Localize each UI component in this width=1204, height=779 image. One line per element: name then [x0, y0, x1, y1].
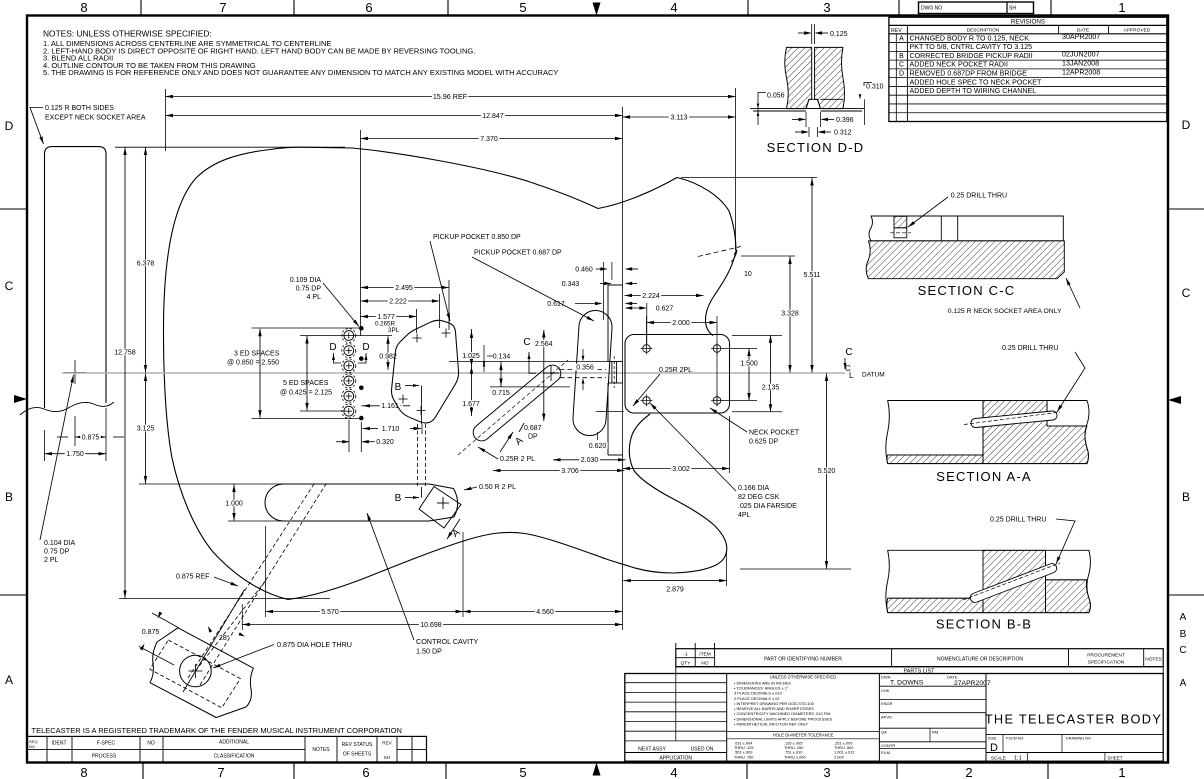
svg-text:USED ON: USED ON [691, 747, 714, 753]
svg-text:NO: NO [701, 661, 708, 667]
svg-text:REV STATUS: REV STATUS [342, 742, 373, 748]
dim 3.328 [741, 255, 795, 257]
svg-text:PROCUREMENT: PROCUREMENT [1087, 653, 1125, 659]
svg-text:0.25R 2PL: 0.25R 2PL [659, 367, 692, 374]
svg-text:SIZE: SIZE [988, 736, 997, 740]
dim 3.002 [729, 416, 731, 473]
svg-text:0.620: 0.620 [589, 443, 607, 450]
svg-text:A: A [1180, 678, 1187, 689]
svg-text:A: A [513, 435, 525, 448]
dim 5.570 [265, 526, 267, 617]
dim 0.617 [546, 300, 567, 307]
svg-text:CONTROL CAVITY: CONTROL CAVITY [416, 637, 479, 646]
svg-text:7.370: 7.370 [480, 136, 498, 143]
extension line cavity top y=484 [139, 483, 368, 485]
dim 0.356 [582, 349, 584, 358]
svg-text:0.875 REF: 0.875 REF [176, 574, 209, 581]
svg-text:3PL: 3PL [388, 327, 400, 334]
svg-text:0.125: 0.125 [830, 31, 848, 38]
svg-text:RM: RM [932, 730, 938, 735]
control cavity [265, 484, 458, 521]
svg-text:0.75 DP: 0.75 DP [44, 549, 70, 556]
svg-text:13JAN2008: 13JAN2008 [1062, 60, 1099, 68]
section B-B cavity lines [888, 597, 983, 599]
svg-text:5.570: 5.570 [321, 609, 339, 616]
svg-text:6.378: 6.378 [137, 260, 155, 267]
svg-text:0.104 DIA: 0.104 DIA [44, 540, 75, 547]
zone ticks sides [0, 208, 27, 210]
svg-text:C: C [845, 347, 852, 358]
neck pickup pocket [392, 320, 459, 423]
svg-text:5: 5 [519, 0, 526, 15]
dim 2.222 [361, 300, 440, 302]
dim 1.750 thickness [45, 453, 107, 455]
svg-text:REV: REV [891, 28, 902, 34]
svg-text:DATE: DATE [947, 675, 958, 680]
svg-text:CHK: CHK [881, 688, 890, 693]
svg-text:SHEET: SHEET [1108, 755, 1123, 760]
svg-text:1.710: 1.710 [382, 426, 400, 433]
svg-text:0.627: 0.627 [656, 305, 674, 312]
svg-text:3.113: 3.113 [671, 114, 688, 121]
svg-text:SECTION D-D: SECTION D-D [767, 140, 865, 155]
svg-text:10.698: 10.698 [420, 622, 442, 629]
section C-C lower block [866, 241, 1064, 279]
svg-text:C: C [1179, 645, 1186, 656]
svg-text:DATUM: DATUM [862, 372, 885, 379]
svg-text:SCALE: SCALE [991, 755, 1006, 760]
title block [625, 674, 1163, 762]
svg-text:3 ED SPACES: 3 ED SPACES [234, 351, 280, 358]
svg-text:3.002: 3.002 [672, 466, 690, 473]
svg-text:27APR2007: 27APR2007 [954, 680, 991, 687]
svg-text:@ 0.425 = 2.125: @ 0.425 = 2.125 [280, 389, 332, 396]
svg-text:FSCM NO: FSCM NO [1006, 736, 1024, 740]
svg-text:3.125: 3.125 [137, 425, 155, 432]
svg-text:@ 0.850 = 2.550: @ 0.850 = 2.550 [227, 360, 279, 367]
svg-text:0.50 R 2 PL: 0.50 R 2 PL [479, 484, 516, 491]
svg-text:ITEM: ITEM [699, 652, 710, 658]
svg-text:0.356: 0.356 [576, 364, 594, 371]
svg-text:0.625 DP: 0.625 DP [749, 439, 779, 446]
svg-text:DESCRIPTION: DESCRIPTION [967, 27, 1000, 33]
svg-text:QA: QA [881, 730, 887, 735]
svg-text:B: B [1180, 629, 1187, 640]
svg-text:02JUN2007: 02JUN2007 [1062, 51, 1100, 59]
svg-text:0.75 DP: 0.75 DP [296, 286, 322, 293]
svg-text:2.222: 2.222 [389, 298, 407, 305]
svg-text:0.25 DRILL THRU: 0.25 DRILL THRU [1002, 345, 1058, 352]
dim 15.96 REF [166, 96, 736, 98]
notes block [43, 29, 558, 78]
section C-C drill block [894, 216, 907, 228]
svg-text:8: 8 [80, 0, 87, 15]
svg-text:T. DOWNS: T. DOWNS [890, 680, 924, 687]
svg-text:PART OR IDENTIFYING NUMBER: PART OR IDENTIFYING NUMBER [764, 657, 842, 663]
body outline [164, 147, 737, 335]
centering arrow left [14, 395, 27, 403]
section B-B hatch mid [983, 550, 1046, 612]
svg-text:QTY: QTY [681, 661, 692, 667]
svg-text:2.495: 2.495 [395, 285, 413, 292]
svg-text:2.135: 2.135 [762, 384, 780, 391]
svg-text:3: 3 [823, 0, 830, 15]
svg-text:1.025: 1.025 [462, 353, 480, 360]
svg-text:C: C [5, 279, 14, 293]
svg-text:ENGR: ENGR [881, 701, 893, 706]
svg-text:CONTR: CONTR [881, 743, 895, 748]
svg-text:PICKUP POCKET 0.850 DP: PICKUP POCKET 0.850 DP [433, 234, 521, 241]
svg-text:FILM: FILM [881, 750, 890, 755]
dim 0.056 [758, 93, 766, 100]
svg-text:0.109 DIA: 0.109 DIA [290, 277, 321, 284]
dim 0.396 [805, 112, 807, 127]
svg-text:7: 7 [219, 0, 226, 15]
svg-text:REMOVED 0.687DP FROM BRIDGE: REMOVED 0.687DP FROM BRIDGE [910, 69, 1028, 77]
wiring channel dashed to cavity [417, 424, 419, 486]
section B-B hatch bottom [887, 598, 983, 613]
svg-text:REV: REV [382, 741, 392, 746]
svg-text:0.25 DRILL THRU: 0.25 DRILL THRU [951, 193, 1007, 200]
svg-text:B: B [899, 53, 904, 60]
dim 0.312 [808, 127, 810, 137]
svg-text:1.500: 1.500 [740, 360, 758, 367]
svg-text:1.677: 1.677 [462, 401, 480, 408]
svg-text:D: D [5, 119, 14, 133]
svg-text:DP: DP [528, 434, 538, 441]
bottom left table [27, 736, 427, 762]
section B-B block [886, 550, 1091, 612]
jack plate dashed rect [150, 640, 241, 708]
svg-text:PICKUP POCKET 0.687 DP: PICKUP POCKET 0.687 DP [474, 250, 562, 257]
svg-text:TELECASTER IS A REGISTERED TRA: TELECASTER IS A REGISTERED TRADEMARK OF … [32, 726, 402, 735]
svg-text:0.166 DIA: 0.166 DIA [738, 485, 769, 492]
svg-text:B: B [395, 493, 402, 504]
section D-D surface lines [750, 108, 865, 110]
side view outline [45, 147, 107, 408]
svg-text:4: 4 [670, 765, 677, 779]
section A-A cavity lines [888, 454, 983, 456]
neck pocket [625, 335, 730, 414]
svg-text:C: C [899, 62, 904, 69]
side view centerline cross [74, 360, 76, 384]
svg-text:ADDED HOLE SPEC TO NECK POCKET: ADDED HOLE SPEC TO NECK POCKET [910, 78, 1042, 86]
svg-text:L: L [849, 371, 854, 380]
svg-text:DWG NO: DWG NO [921, 6, 942, 12]
svg-text:NOTES: NOTES [312, 747, 330, 753]
extension line top tangent y=147.2 [115, 146, 345, 148]
svg-text:2.879: 2.879 [666, 587, 684, 594]
svg-text:7: 7 [217, 765, 224, 779]
svg-text:APPROVED: APPROVED [1124, 27, 1151, 33]
svg-text:1.50 DP: 1.50 DP [416, 647, 442, 656]
svg-text:6: 6 [362, 765, 369, 779]
parts list header [676, 643, 1163, 675]
svg-text:THRU 1.000: THRU 1.000 [784, 754, 806, 759]
dim 2.879 [726, 552, 728, 586]
svg-text:PROCESS: PROCESS [92, 754, 117, 760]
svg-text:0.312: 0.312 [834, 130, 852, 137]
dim 3.706 [493, 470, 625, 472]
svg-text:NO: NO [29, 744, 35, 749]
centering arrow right [1168, 396, 1181, 404]
svg-text:APPLICATION: APPLICATION [659, 756, 692, 762]
svg-text:• PARENTHETICAL INFO FOR REF O: • PARENTHETICAL INFO FOR REF ONLY [734, 722, 809, 727]
dim 5.520 [740, 568, 851, 570]
dim 2.000 [646, 316, 648, 343]
dim 1.500 [722, 348, 757, 350]
svg-text:C: C [523, 337, 530, 348]
svg-text:.025 DIA FARSIDE: .025 DIA FARSIDE [738, 503, 797, 510]
svg-text:0.396: 0.396 [836, 117, 854, 124]
section D-D ferrule [806, 99, 821, 108]
jack hole [180, 655, 212, 687]
svg-text:CORRECTED BRIDGE PICKUP RADII: CORRECTED BRIDGE PICKUP RADII [910, 52, 1033, 60]
dim 0.875 jack [152, 613, 179, 628]
dim 10.698 [241, 604, 243, 630]
centering arrow top [593, 3, 601, 16]
svg-text:2.224: 2.224 [642, 293, 660, 300]
svg-text:15.96 REF: 15.96 REF [433, 92, 468, 101]
svg-text:CHANGED BODY R TO 0.125, NECK: CHANGED BODY R TO 0.125, NECK [910, 34, 1030, 42]
svg-text:NOTES: UNLESS OTHERWISE SPECI: NOTES: UNLESS OTHERWISE SPECIFIED: [43, 29, 212, 39]
svg-text:OF SHEETS: OF SHEETS [343, 752, 372, 758]
svg-text:D: D [990, 742, 998, 754]
svg-text:2 PL: 2 PL [44, 557, 59, 564]
revisions table [889, 17, 1167, 121]
svg-text:1: 1 [1118, 0, 1125, 15]
dim 2.495 [361, 287, 450, 289]
svg-text:10: 10 [744, 271, 752, 278]
pickup screw crosses [413, 337, 422, 339]
dim 0.310 [864, 83, 872, 87]
svg-text:HOLE DIAMETER TOLERANCE: HOLE DIAMETER TOLERANCE [773, 732, 834, 737]
bridge pickup pocket [573, 310, 612, 435]
angle 10 deg [698, 247, 741, 257]
svg-text:30APR2007: 30APR2007 [1062, 33, 1100, 41]
svg-text:SECTION B-B: SECTION B-B [936, 617, 1032, 632]
svg-text:0.687: 0.687 [524, 425, 542, 432]
svg-text:4 PL: 4 PL [307, 294, 322, 301]
svg-text:0.875 DIA HOLE THRU: 0.875 DIA HOLE THRU [277, 640, 352, 649]
extension y=361.5 [449, 361, 608, 363]
svg-text:D: D [362, 342, 369, 353]
svg-text:2.564: 2.564 [535, 341, 553, 348]
dim 3.113 [623, 116, 736, 118]
extension line body bottom y=598.5 [119, 598, 330, 600]
channel end cross and dashed leads [543, 372, 559, 374]
svg-text:12.758: 12.758 [114, 349, 136, 356]
svg-text:5. THE DRAWING IS FOR REFERENC: 5. THE DRAWING IS FOR REFERENCE ONLY AND… [43, 68, 558, 77]
svg-text:D: D [329, 342, 336, 353]
dim 4.560 [463, 611, 623, 613]
dim 2.564 [543, 330, 545, 421]
section A letters [513, 435, 525, 448]
svg-text:A: A [899, 35, 904, 42]
svg-text:4: 4 [670, 0, 677, 15]
section B-B channel [970, 564, 1056, 603]
svg-text:THE TELECASTER BODY: THE TELECASTER BODY [985, 712, 1162, 727]
svg-text:5: 5 [519, 765, 526, 779]
svg-text:CLASSIFICATION: CLASSIFICATION [214, 754, 255, 760]
svg-text:1: 1 [1118, 765, 1125, 779]
svg-text:REVISIONS: REVISIONS [1011, 19, 1045, 26]
svg-text:UNLESS OTHERWISE SPECIFIED: UNLESS OTHERWISE SPECIFIED [770, 675, 836, 680]
svg-text:0.460: 0.460 [575, 266, 593, 273]
svg-text:2.000: 2.000 [672, 320, 690, 327]
extension y=386.9 [490, 386, 570, 388]
svg-text:2: 2 [965, 765, 972, 779]
section A-A leader [1057, 352, 1085, 412]
svg-text:82 DEG CSK: 82 DEG CSK [738, 494, 780, 501]
dwg no box [919, 2, 1034, 14]
string slot [608, 361, 623, 363]
svg-text:B: B [1182, 490, 1190, 504]
svg-text:12.847: 12.847 [482, 113, 504, 120]
svg-text:SH: SH [384, 755, 390, 760]
dim 12.847 [166, 115, 623, 117]
dim 0.134 [491, 353, 512, 360]
dim 0.627 [654, 305, 675, 312]
svg-text:4PL: 4PL [738, 512, 751, 519]
svg-text:ADDED NECK POCKET RADII: ADDED NECK POCKET RADII [910, 61, 1008, 69]
jack plate outline [150, 628, 253, 718]
svg-text:B: B [395, 382, 402, 393]
centering arrow bottom [593, 763, 601, 776]
dim 12.758 [124, 148, 126, 599]
svg-text:2.030: 2.030 [581, 457, 599, 464]
side view break squiggle [20, 402, 114, 415]
section A-A hatch bottom strip [887, 455, 983, 464]
svg-text:5 ED SPACES: 5 ED SPACES [283, 380, 329, 387]
dim 3.125 [145, 374, 147, 484]
svg-text:EXCEPT NECK SOCKET AREA: EXCEPT NECK SOCKET AREA [45, 115, 146, 122]
svg-text:NECK POCKET: NECK POCKET [749, 430, 800, 437]
dim 1.577 [361, 316, 417, 318]
svg-text:SECTION A-A: SECTION A-A [936, 469, 1032, 484]
svg-text:ADDED DEPTH TO WIRING CHANNEL: ADDED DEPTH TO WIRING CHANNEL [910, 87, 1037, 95]
svg-text:8: 8 [80, 765, 87, 779]
dim 0.715 [500, 362, 502, 387]
section C-C upper strip [869, 216, 1063, 241]
dim 0.125 D-D [798, 32, 811, 34]
dim 2.224 [625, 295, 704, 297]
section A-A channel [971, 411, 1057, 428]
svg-text:0.134: 0.134 [493, 353, 511, 360]
svg-text:0.25 DRILL THRU: 0.25 DRILL THRU [990, 517, 1046, 524]
dim 2.030 [553, 459, 626, 461]
dim 7.370 [361, 138, 623, 140]
section B-B hatch right [1046, 580, 1091, 613]
zone ticks bottom [142, 763, 144, 779]
section C-C channel walls [940, 216, 942, 241]
svg-text:DRAWING NO: DRAWING NO [1066, 736, 1091, 740]
bridge plate lines [607, 285, 609, 362]
svg-text:0.875: 0.875 [142, 629, 160, 636]
section D-D slot stubs [811, 24, 813, 44]
svg-text:THRU .750: THRU .750 [734, 754, 754, 759]
svg-text:ADDITIONAL: ADDITIONAL [219, 740, 249, 746]
svg-text:D: D [1182, 118, 1191, 132]
side view extension lines [44, 430, 46, 461]
svg-text:NEXT ASSY: NEXT ASSY [638, 747, 666, 753]
jack channel lines [183, 590, 245, 693]
svg-text:0.125 R NECK SOCKET AREA ONLY: 0.125 R NECK SOCKET AREA ONLY [948, 308, 1062, 315]
extension line pickup x=360.5 [360, 130, 362, 336]
svg-text:F-SPEC: F-SPEC [97, 741, 116, 747]
svg-text:-1: -1 [683, 652, 688, 658]
svg-text:0.056: 0.056 [767, 93, 785, 100]
svg-text:0.343: 0.343 [562, 281, 580, 288]
neck pocket screw holes [643, 345, 651, 353]
svg-text:5.520: 5.520 [818, 468, 836, 475]
svg-text:0.25R 2 PL: 0.25R 2 PL [500, 456, 535, 463]
svg-text:B: B [5, 490, 13, 504]
dim 5.511 [681, 177, 817, 179]
svg-text:NOTES: NOTES [1145, 657, 1162, 663]
svg-text:6: 6 [365, 0, 372, 15]
extension line bridge x=622.5 [622, 107, 624, 630]
svg-text:APVD: APVD [881, 715, 892, 720]
svg-text:NO: NO [147, 741, 155, 747]
centerline datum [62, 372, 845, 374]
svg-text:2.000: 2.000 [834, 754, 845, 759]
svg-text:A: A [5, 673, 13, 687]
section A-A hatch right [983, 401, 1089, 464]
dim 2.135 [732, 334, 782, 336]
dim 6.378 [145, 148, 147, 373]
svg-text:SPECIFICATION: SPECIFICATION [1088, 660, 1125, 666]
zone ticks top [140, 0, 142, 16]
svg-text:D: D [899, 70, 904, 77]
dim 0.982 [352, 334, 392, 336]
dim 1.710 [348, 420, 350, 452]
mounting holes 0.109 4PL [359, 326, 364, 331]
svg-text:1.000: 1.000 [225, 500, 243, 507]
svg-text:SECTION C-C: SECTION C-C [918, 283, 1016, 298]
svg-text:PKT TO 5/8, CNTRL CAVITY TO 3.: PKT TO 5/8, CNTRL CAVITY TO 3.125 [910, 43, 1033, 51]
svg-text:5.511: 5.511 [804, 272, 821, 279]
svg-text:NOMENCLATURE OR DESCRIPTION: NOMENCLATURE OR DESCRIPTION [937, 657, 1023, 663]
svg-text:IDENT: IDENT [52, 741, 67, 747]
svg-text:3: 3 [823, 765, 830, 779]
svg-text:0.125 R BOTH SIDES: 0.125 R BOTH SIDES [45, 105, 114, 112]
svg-text:0.320: 0.320 [376, 439, 394, 446]
svg-text:SH: SH [1009, 6, 1016, 12]
svg-text:3.706: 3.706 [561, 468, 579, 475]
extension line body left x=165.5 [165, 89, 167, 151]
svg-text:3.328: 3.328 [781, 310, 799, 317]
svg-text:1.750: 1.750 [66, 451, 84, 458]
dim 0.343 [560, 280, 581, 287]
svg-text:0.875: 0.875 [82, 434, 100, 441]
svg-text:12APR2008: 12APR2008 [1062, 68, 1100, 76]
dim 1.000 [228, 520, 292, 522]
dim 0.875 thickness [75, 436, 106, 438]
dim 1.161 [361, 405, 380, 407]
dim 0.460 [574, 266, 595, 273]
dims 1.025 1.677 [471, 329, 473, 416]
svg-text:4.560: 4.560 [536, 609, 554, 616]
svg-text:A: A [1180, 612, 1187, 623]
dim 0.320 [336, 441, 349, 443]
section A-A block [886, 401, 1089, 464]
svg-text:C: C [1182, 286, 1191, 300]
wiring channel A obround [473, 365, 561, 441]
svg-text:28°: 28° [219, 634, 230, 642]
svg-text:1:1: 1:1 [1014, 756, 1022, 762]
svg-text:0.310: 0.310 [866, 84, 884, 91]
